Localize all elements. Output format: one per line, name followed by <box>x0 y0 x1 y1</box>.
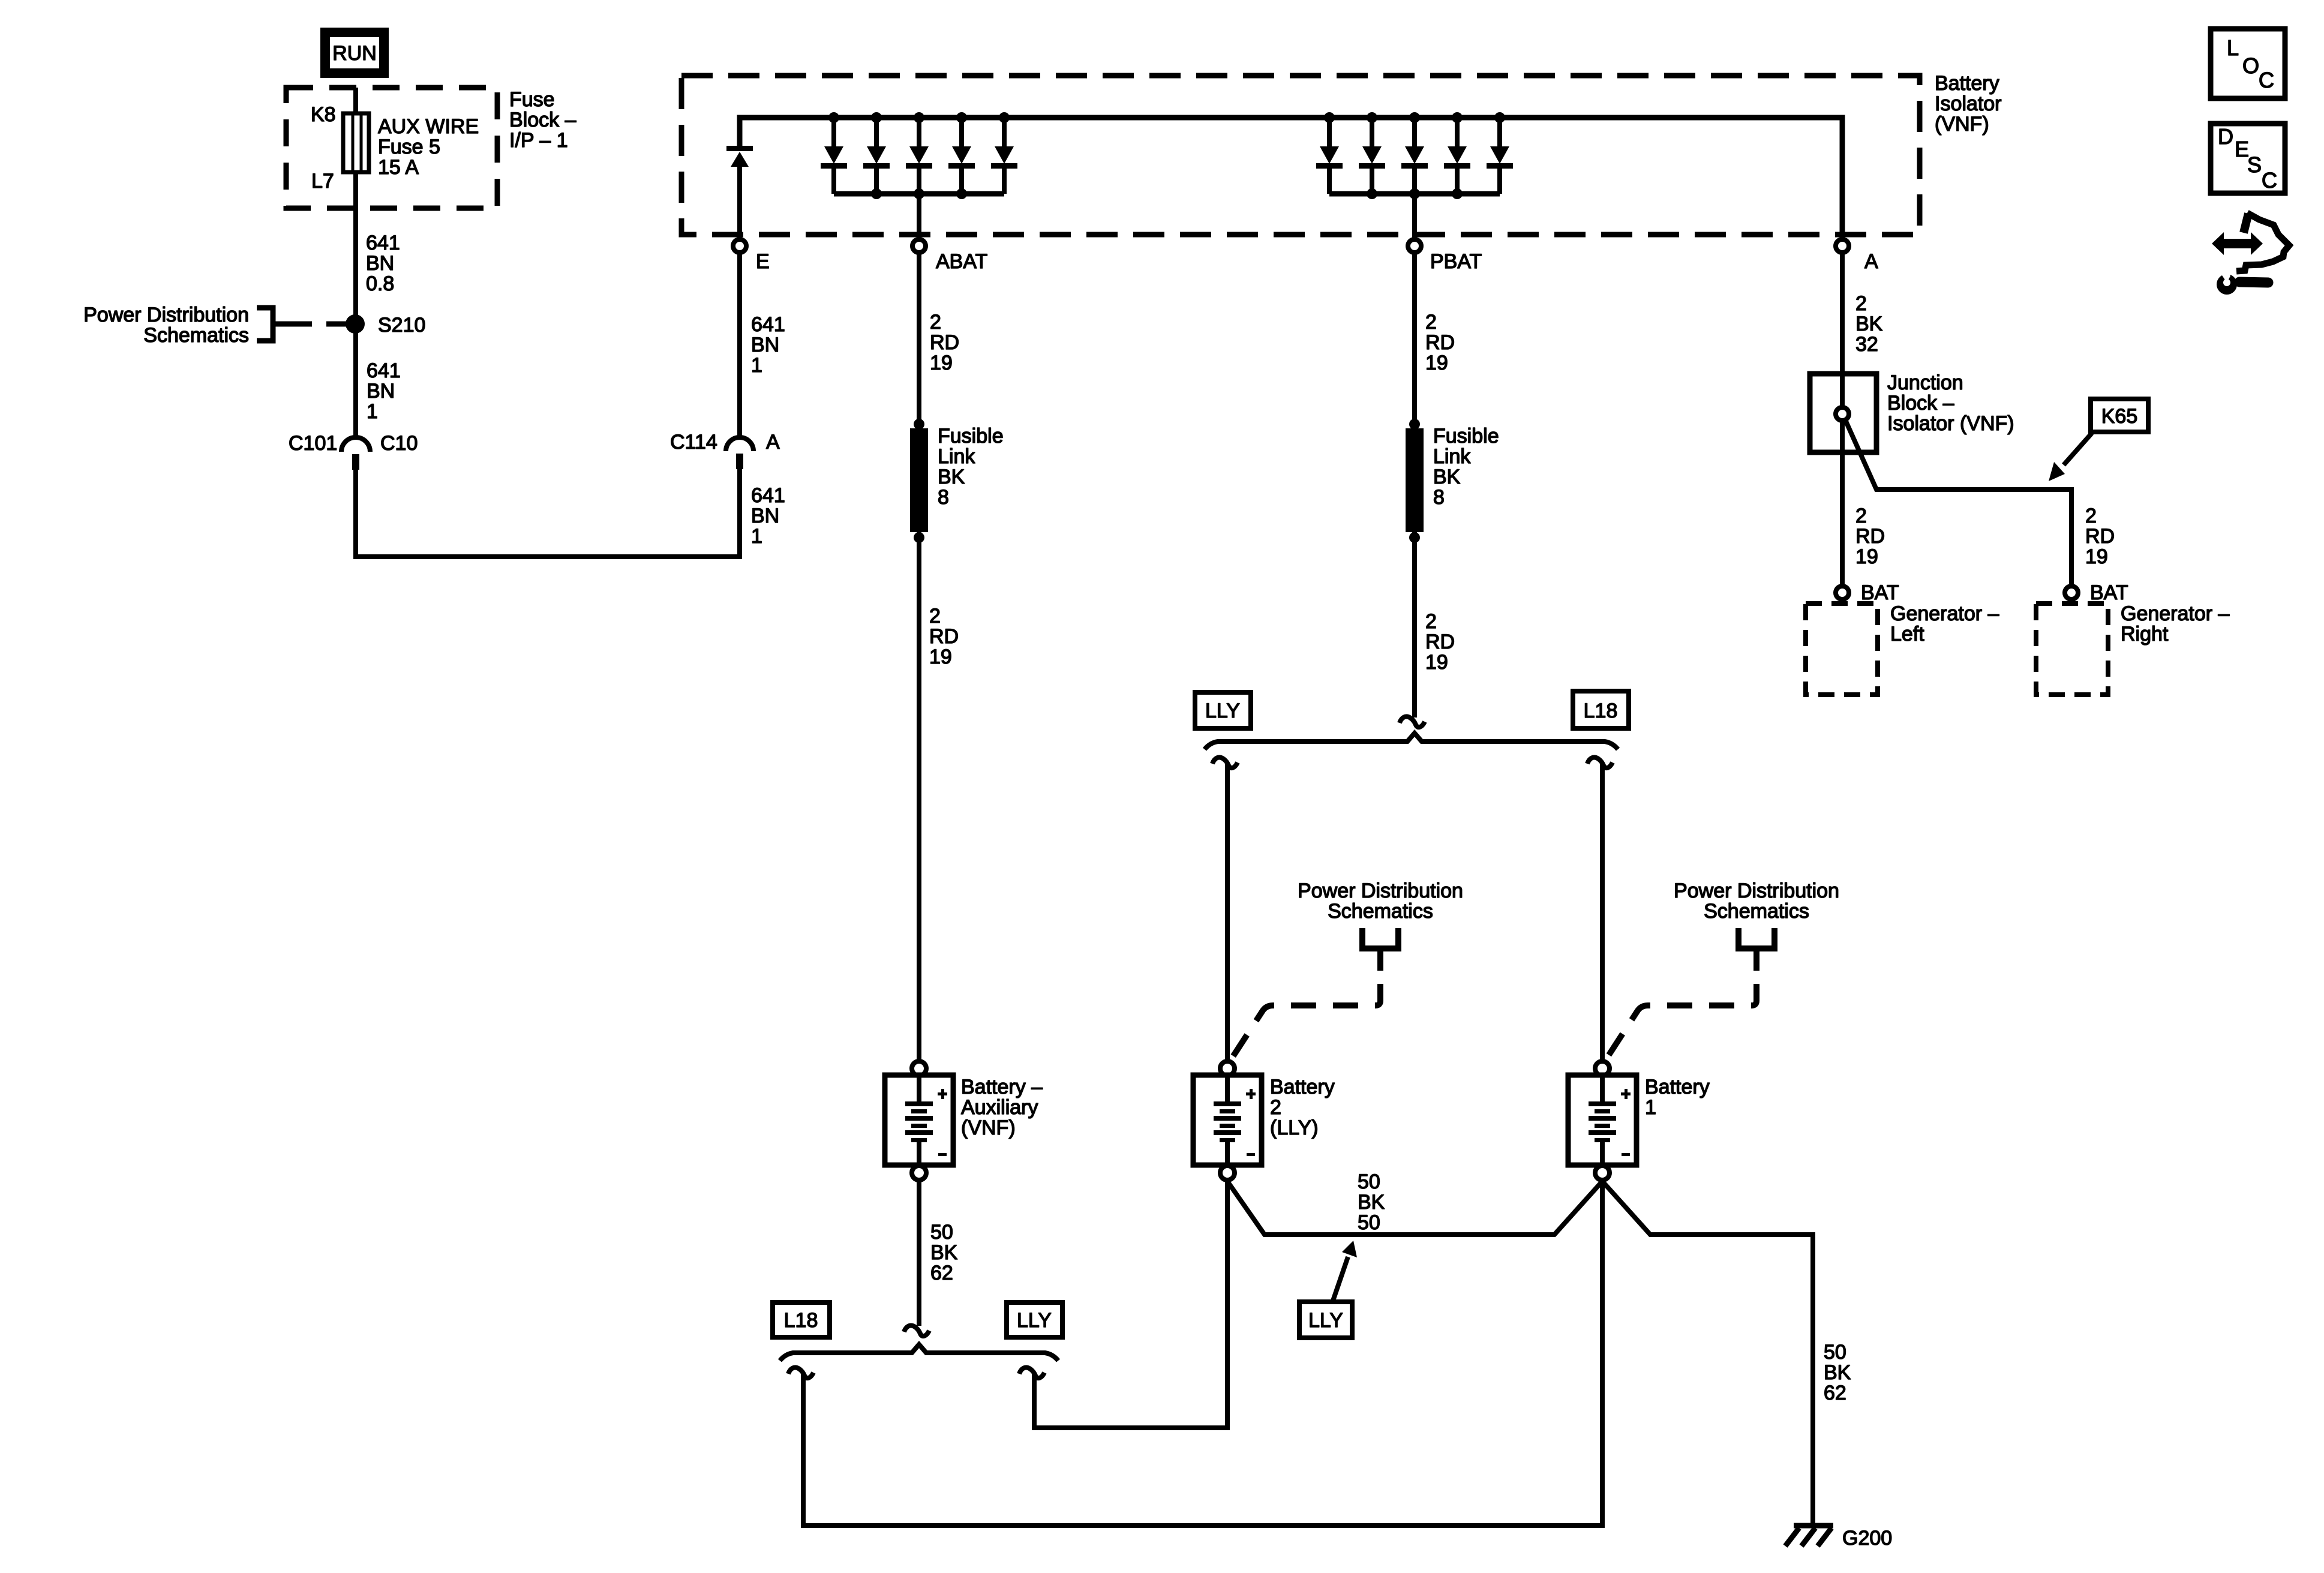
svg-text:C: C <box>2262 168 2277 193</box>
svg-text:8: 8 <box>1433 486 1445 509</box>
fuse block label <box>311 88 577 193</box>
battery 2 (LLY) <box>1193 1061 1262 1180</box>
generator left dashed box <box>1806 604 1878 695</box>
svg-text:32: 32 <box>1855 333 1878 356</box>
hook (L18 branch) <box>788 1367 813 1378</box>
terminal ABAT <box>912 239 926 253</box>
svg-text:Link: Link <box>1433 445 1471 468</box>
connector C101 / C10 <box>341 437 370 452</box>
svg-text:K65: K65 <box>2101 405 2138 428</box>
svg-text:BN: BN <box>366 252 394 275</box>
svg-text:O: O <box>2242 53 2259 78</box>
diode bank (ABAT) <box>831 118 836 148</box>
wire to battery 1 <box>1600 764 1605 1060</box>
battery isolator label <box>1935 72 2002 136</box>
terminal E <box>733 239 746 253</box>
svg-text:LLY: LLY <box>1205 700 1240 722</box>
svg-text:Left: Left <box>1890 623 1924 646</box>
svg-text:BK: BK <box>1433 466 1461 488</box>
svg-text:S210: S210 <box>378 314 425 337</box>
svg-text:Battery: Battery <box>1270 1076 1335 1098</box>
svg-text:19: 19 <box>2085 545 2108 568</box>
svg-text:1: 1 <box>367 400 378 423</box>
svg-text:L: L <box>2227 35 2239 60</box>
wire label 641 BN 1 (below S210) <box>367 359 401 423</box>
svg-text:BK: BK <box>938 466 965 488</box>
terminal BAT (generator left) <box>1836 586 1849 599</box>
splice S210 <box>346 314 365 334</box>
svg-text:A: A <box>1864 250 1878 273</box>
tag box L18 <box>1573 691 1629 728</box>
junction block isolator box <box>1810 374 1876 452</box>
svg-text:19: 19 <box>1425 352 1448 374</box>
svg-text:C101: C101 <box>289 432 337 455</box>
svg-text:19: 19 <box>930 352 953 374</box>
svg-text:19: 19 <box>929 646 952 668</box>
svg-text:E: E <box>756 250 770 273</box>
svg-text:2: 2 <box>929 605 941 628</box>
option brace (L18/LLY split lower) <box>780 1344 1058 1361</box>
svg-text:Link: Link <box>938 445 975 468</box>
battery auxiliary (VNF) <box>885 1061 953 1180</box>
svg-text:AUX WIRE: AUX WIRE <box>378 115 479 138</box>
svg-text:Battery –: Battery – <box>961 1076 1043 1098</box>
svg-text:2: 2 <box>1270 1096 1281 1119</box>
svg-text:C: C <box>2259 68 2274 92</box>
wire ABAT to battery auxiliary <box>917 254 921 1060</box>
svg-text:L18: L18 <box>1584 700 1618 722</box>
connector C114 pin A <box>726 437 753 451</box>
terminal PBAT <box>1408 239 1421 253</box>
svg-text:Isolator (VNF): Isolator (VNF) <box>1887 412 2014 435</box>
svg-text:L18: L18 <box>784 1309 818 1332</box>
svg-text:2: 2 <box>1425 311 1437 334</box>
svg-text:BAT: BAT <box>1861 581 1899 604</box>
svg-text:(VNF): (VNF) <box>1935 113 1989 136</box>
svg-text:1: 1 <box>751 525 762 548</box>
callout bracket <box>257 308 287 341</box>
svg-text:641: 641 <box>751 484 785 507</box>
wire C101 down and right to C114 leg <box>356 468 740 557</box>
svg-text:Isolator: Isolator <box>1935 92 2002 115</box>
svg-text:8: 8 <box>938 486 949 509</box>
svg-text:RD: RD <box>930 331 959 354</box>
svg-text:62: 62 <box>1824 1382 1846 1404</box>
svg-text:Fusible: Fusible <box>1433 425 1499 448</box>
fusible link (PBAT) <box>1409 419 1420 430</box>
svg-text:1: 1 <box>751 354 762 377</box>
DESC link box <box>2211 124 2285 193</box>
battery 1 <box>1568 1061 1637 1180</box>
svg-text:19: 19 <box>1425 651 1448 674</box>
svg-text:641: 641 <box>367 359 401 382</box>
svg-text:A: A <box>766 431 780 454</box>
svg-text:RD: RD <box>1855 525 1885 548</box>
svg-text:Battery: Battery <box>1935 72 1999 95</box>
power distribution schematics callout (battery 2) <box>1298 879 1463 923</box>
svg-text:Fuse 5: Fuse 5 <box>378 136 440 158</box>
svg-text:Fusible: Fusible <box>938 425 1004 448</box>
svg-text:I/P – 1: I/P – 1 <box>509 129 568 152</box>
LLY tag with arrow <box>1299 1302 1352 1338</box>
hook (LLY branch) <box>1019 1367 1044 1378</box>
fuse block I/P dashed box <box>286 88 497 208</box>
svg-text:(LLY): (LLY) <box>1270 1116 1319 1139</box>
tag box K65 <box>2091 399 2148 432</box>
power distribution schematics callout (battery 1) <box>1674 879 1839 923</box>
hook (battery2 branch) <box>1212 757 1238 768</box>
svg-text:BK: BK <box>1855 313 1883 335</box>
svg-text:Schematics: Schematics <box>1704 900 1809 923</box>
svg-text:ABAT: ABAT <box>936 250 987 273</box>
svg-text:LLY: LLY <box>1017 1309 1052 1332</box>
svg-text:D: D <box>2218 124 2233 149</box>
svg-text:RD: RD <box>2085 525 2115 548</box>
isolator internal bus <box>740 118 1842 238</box>
option brace (LLY/L18 split) <box>1205 733 1618 749</box>
wire bank1 to ABAT terminal <box>917 194 921 238</box>
wire battery auxiliary negative <box>917 1181 921 1326</box>
svg-text:PBAT: PBAT <box>1430 250 1482 273</box>
tag box LLY (lower) <box>1007 1302 1062 1337</box>
svg-text:Block –: Block – <box>509 109 577 131</box>
svg-text:2: 2 <box>930 311 941 334</box>
diode bank (PBAT) <box>1327 118 1332 148</box>
svg-text:50: 50 <box>1358 1170 1380 1193</box>
svg-text:BK: BK <box>930 1241 958 1264</box>
svg-text:Power Distribution: Power Distribution <box>83 304 249 326</box>
svg-text:2: 2 <box>2085 505 2097 527</box>
svg-text:Battery: Battery <box>1645 1076 1710 1098</box>
svg-text:G200: G200 <box>1842 1527 1892 1550</box>
terminal A <box>1836 239 1849 253</box>
svg-text:RUN: RUN <box>332 42 377 65</box>
wire junction block to generator right <box>1845 420 2071 584</box>
svg-text:(VNF): (VNF) <box>961 1116 1016 1139</box>
dashed leader to S210 <box>287 322 347 327</box>
svg-text:Fuse: Fuse <box>509 88 555 111</box>
generator right dashed box <box>2036 604 2108 695</box>
wire fuse to S210 <box>353 172 358 437</box>
svg-text:Block –: Block – <box>1887 392 1954 415</box>
svg-text:641: 641 <box>366 232 400 254</box>
svg-text:Generator –: Generator – <box>1890 602 1999 625</box>
wire PBAT to split <box>1412 254 1417 718</box>
svg-text:RD: RD <box>929 625 959 648</box>
wire label 641 BN 0.8 <box>366 232 400 295</box>
svg-text:2: 2 <box>1855 505 1867 527</box>
svg-text:62: 62 <box>930 1262 953 1284</box>
diode (E leg, anode down) <box>726 146 753 238</box>
ground G200 <box>1785 1526 1833 1546</box>
LOC link box <box>2211 29 2285 98</box>
wire LLY branch to battery 2 <box>1034 1181 1227 1428</box>
svg-text:C10: C10 <box>380 432 418 455</box>
wire RUN to fuse <box>353 88 358 115</box>
svg-text:50: 50 <box>1358 1211 1380 1234</box>
svg-text:2: 2 <box>1425 610 1437 633</box>
wire A to junction block and generator left <box>1840 254 1845 584</box>
battery isolator dashed box <box>681 76 1920 235</box>
svg-text:Right: Right <box>2121 623 2169 646</box>
svg-text:Schematics: Schematics <box>1328 900 1433 923</box>
svg-text:641: 641 <box>751 313 785 336</box>
fusible link (ABAT) <box>914 419 924 430</box>
svg-text:RD: RD <box>1425 631 1455 653</box>
power distribution schematics callout (left) <box>83 304 249 347</box>
svg-text:Generator –: Generator – <box>2121 602 2230 625</box>
svg-text:0.8: 0.8 <box>366 272 394 295</box>
svg-text:50: 50 <box>1824 1341 1846 1364</box>
hook (battery1 branch) <box>1587 757 1613 768</box>
tag box LLY <box>1195 692 1251 728</box>
negative bus battery2-battery1 (50 BK 50) <box>1227 1181 1602 1235</box>
wire break symbol (aux) <box>904 1325 929 1336</box>
tag box L18 (lower) <box>773 1302 830 1337</box>
svg-text:LLY: LLY <box>1308 1309 1343 1332</box>
terminal BAT (generator right) <box>2065 586 2078 599</box>
svg-text:Auxiliary: Auxiliary <box>961 1096 1038 1119</box>
wire L18 branch to battery1 leg <box>803 1181 1602 1526</box>
svg-text:BK: BK <box>1824 1361 1851 1384</box>
svg-text:BK: BK <box>1358 1191 1385 1214</box>
svg-text:BN: BN <box>751 505 779 527</box>
svg-text:S: S <box>2247 152 2262 177</box>
ignition switch RUN box <box>320 28 389 78</box>
svg-text:BAT: BAT <box>2090 581 2128 604</box>
svg-text:C114: C114 <box>670 431 717 454</box>
svg-text:15 A: 15 A <box>378 156 419 179</box>
wire battery1 to G200 <box>1602 1181 1813 1524</box>
svg-text:L7: L7 <box>311 170 334 193</box>
fuse F5 symbol <box>343 113 369 172</box>
wire to battery 2 <box>1225 764 1230 1060</box>
svg-text:2: 2 <box>1855 292 1867 315</box>
fuse value label <box>378 115 479 179</box>
svg-text:BN: BN <box>751 334 779 356</box>
svg-text:BN: BN <box>367 380 395 403</box>
svg-text:Power Distribution: Power Distribution <box>1298 879 1463 902</box>
svg-text:50: 50 <box>930 1221 953 1244</box>
repair info icon <box>2212 213 2289 295</box>
svg-text:Junction: Junction <box>1887 371 1963 394</box>
svg-text:RD: RD <box>1425 331 1455 354</box>
svg-text:Power Distribution: Power Distribution <box>1674 879 1839 902</box>
wire bank2 to PBAT terminal <box>1412 194 1417 238</box>
svg-text:1: 1 <box>1645 1096 1656 1119</box>
svg-text:19: 19 <box>1855 545 1878 568</box>
K65 arrow <box>2064 433 2092 465</box>
svg-text:Schematics: Schematics <box>143 324 249 347</box>
wire E to C114 <box>737 254 742 436</box>
wire break symbol (PBAT) <box>1400 716 1425 727</box>
svg-text:K8: K8 <box>311 103 336 126</box>
